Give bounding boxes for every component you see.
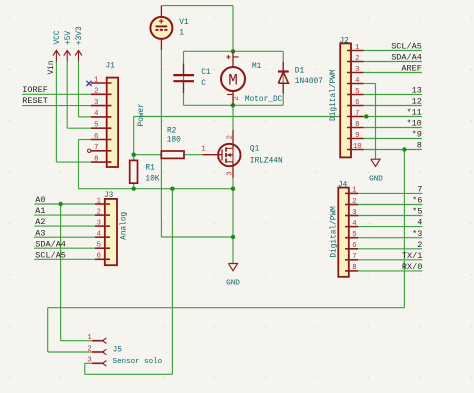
- svg-text:6: 6: [355, 99, 359, 107]
- svg-text:A2: A2: [35, 217, 45, 227]
- svg-text:J5: J5: [113, 346, 123, 354]
- svg-text:GND: GND: [226, 280, 240, 288]
- svg-text:RX/0: RX/0: [402, 262, 422, 272]
- svg-text:4: 4: [97, 231, 101, 239]
- wire net *11 rail (J2 pin7 to R2/R1): [134, 117, 367, 155]
- svg-text:M: M: [228, 71, 238, 89]
- power symbol VCC: [53, 50, 60, 61]
- pin 7 (J1): [88, 149, 112, 152]
- motor M1: [221, 51, 245, 105]
- pin 1 (J2): [347, 50, 364, 52]
- pin 3 (J4): [345, 215, 358, 217]
- resistor R1: [130, 160, 138, 183]
- svg-text:3: 3: [87, 357, 91, 365]
- wire net A0 to J5 pin1: [61, 204, 92, 341]
- pin 4 (J4): [345, 226, 358, 228]
- resistor R2: [161, 151, 184, 158]
- svg-text:SCL/A5: SCL/A5: [391, 42, 422, 52]
- svg-text:10: 10: [353, 143, 362, 151]
- junction motor bottom/drain: [231, 103, 235, 107]
- svg-text:Analog: Analog: [121, 211, 129, 239]
- svg-text:C: C: [201, 80, 206, 88]
- svg-text:1N4007: 1N4007: [295, 78, 323, 86]
- junction V1- GND: [231, 235, 235, 239]
- svg-text:5: 5: [94, 122, 98, 130]
- pin 3 (J3): [95, 225, 110, 227]
- wires J4 pins: [358, 193, 422, 271]
- svg-text:A3: A3: [35, 228, 45, 238]
- junction net 8 at J2 pin10: [402, 147, 406, 151]
- svg-text:2: 2: [97, 208, 101, 216]
- wire Q1 source to GND rail: [232, 178, 234, 189]
- pin 6 (J3): [95, 258, 110, 260]
- connector J1 body: [107, 78, 118, 167]
- junction R1 bottom GND rail: [132, 187, 136, 191]
- svg-text:8: 8: [352, 264, 356, 272]
- svg-text:SDA/A4: SDA/A4: [391, 53, 422, 63]
- junction Q1 source GND rail: [231, 187, 235, 191]
- svg-text:Sensor solo: Sensor solo: [113, 358, 163, 366]
- pin 5 (J2): [347, 94, 364, 96]
- wire J1 pin6 to GND rail: [79, 140, 92, 189]
- pin 3 (J2): [347, 72, 364, 74]
- wire motor bottom to Q1 drain: [232, 105, 234, 130]
- svg-text:Motor_DC: Motor_DC: [245, 96, 283, 104]
- svg-text:7: 7: [355, 110, 359, 118]
- ground symbol GND (J2 pin4): [371, 159, 380, 166]
- connector J4 body: [338, 188, 349, 277]
- power symbol +3V3: [75, 50, 82, 61]
- svg-text:8: 8: [355, 121, 359, 129]
- pin 1 (J5): [92, 338, 106, 344]
- svg-text:R2: R2: [167, 127, 177, 135]
- svg-text:1: 1: [94, 76, 98, 84]
- pin 7 (J2): [347, 116, 364, 118]
- svg-text:SDA/A4: SDA/A4: [35, 239, 66, 249]
- ground symbol GND (main): [228, 264, 237, 271]
- svg-text:2: 2: [87, 345, 91, 353]
- svg-text:D1: D1: [295, 68, 305, 76]
- svg-text:10K: 10K: [145, 176, 159, 184]
- svg-text:6: 6: [94, 133, 98, 141]
- diode D1: [278, 62, 289, 94]
- connector J3 body: [105, 199, 117, 265]
- pin 4 (J1): [91, 116, 112, 118]
- pin 3 (J5): [92, 361, 106, 367]
- pin 5 (J1): [91, 127, 112, 129]
- svg-text:A0: A0: [35, 195, 45, 205]
- battery V1: [150, 6, 172, 51]
- svg-text:J3: J3: [104, 192, 114, 200]
- junction V1+/motor top: [231, 49, 235, 53]
- pin 8 (J2): [347, 127, 364, 129]
- wire V1+ to motor top rail: [161, 6, 233, 52]
- pin 2 (J5): [92, 349, 106, 355]
- svg-text:J2: J2: [340, 38, 350, 46]
- wire GND rail to J5 pin3: [85, 189, 173, 375]
- svg-text:4: 4: [417, 218, 422, 228]
- svg-text:2: 2: [94, 88, 98, 96]
- wire net 8 (J2 pin10 to J5 pin2): [48, 150, 405, 353]
- svg-text:TX/1: TX/1: [402, 251, 422, 261]
- svg-text:1: 1: [352, 187, 356, 195]
- svg-text:Vin: Vin: [48, 60, 56, 74]
- svg-text:RESET: RESET: [22, 96, 48, 106]
- pin 8 (J1): [91, 161, 112, 163]
- svg-text:J4: J4: [338, 182, 348, 190]
- svg-text:4: 4: [94, 110, 98, 118]
- svg-text:GND: GND: [369, 175, 383, 183]
- wire R2 right lead to Q1 gate: [184, 154, 203, 156]
- svg-text:7: 7: [94, 144, 98, 152]
- svg-text:4: 4: [355, 77, 359, 85]
- svg-text:3: 3: [352, 209, 356, 217]
- svg-text:5: 5: [97, 242, 101, 250]
- connector J2 body: [340, 43, 351, 157]
- svg-text:2: 2: [352, 198, 356, 206]
- junction GND rail to J5-3: [170, 187, 174, 191]
- pin 1 (J1): [91, 82, 112, 84]
- pin 6 (J1): [91, 139, 112, 141]
- svg-text:IRLZ44N: IRLZ44N: [250, 158, 283, 166]
- pin 4 (J2): [347, 83, 364, 85]
- svg-text:1: 1: [87, 334, 91, 342]
- svg-text:7: 7: [417, 185, 422, 195]
- pin 2 (J2): [347, 61, 364, 63]
- svg-text:9: 9: [355, 132, 359, 140]
- wire J1 pin4 to +3V3: [79, 62, 92, 117]
- pin 7 (J4): [345, 259, 358, 261]
- wire J1 pin5 to +5V: [67, 62, 91, 129]
- pin 4 (J3): [95, 236, 110, 238]
- wire J1 pin8 to VCC/Vin: [56, 62, 91, 163]
- transistor Q1 IRLZ44N: [203, 130, 241, 178]
- svg-text:*9: *9: [412, 130, 422, 140]
- pin 6 (J4): [345, 248, 358, 250]
- wire GND rail y=188.7: [79, 188, 234, 190]
- svg-text:3: 3: [355, 66, 359, 74]
- wire D1 branch right side: [282, 51, 284, 105]
- pin 2 (J4): [345, 204, 358, 206]
- pin 10 (J2): [347, 149, 364, 151]
- svg-text:8: 8: [417, 141, 422, 151]
- svg-text:SCL/A5: SCL/A5: [35, 250, 66, 260]
- svg-text:2: 2: [417, 240, 422, 250]
- svg-text:+5V: +5V: [65, 31, 73, 45]
- svg-text:M1: M1: [252, 63, 262, 71]
- pin 5 (J4): [345, 237, 358, 239]
- wire motor bottom rail: [184, 104, 284, 106]
- wires J3 analog pins: [34, 204, 95, 259]
- svg-text:180: 180: [167, 137, 181, 145]
- pin 3 (J1): [91, 105, 112, 107]
- capacitor C1: [173, 64, 194, 94]
- svg-text:1: 1: [179, 30, 184, 38]
- svg-text:C1: C1: [201, 69, 211, 77]
- junction J2 pin7 net *11: [364, 114, 368, 118]
- svg-text:3: 3: [94, 99, 98, 107]
- svg-text:3: 3: [97, 219, 101, 227]
- svg-text:R1: R1: [145, 165, 155, 173]
- svg-text:12: 12: [412, 97, 422, 107]
- svg-text:IOREF: IOREF: [22, 85, 48, 95]
- svg-text:A1: A1: [35, 206, 45, 216]
- svg-text:*11: *11: [406, 108, 421, 118]
- wire J2 pin4 to GND symbol: [375, 84, 377, 160]
- wire GND node down to GND symbol: [232, 189, 234, 264]
- svg-text:1: 1: [355, 44, 359, 52]
- pin 5 (J3): [95, 247, 110, 249]
- wire R2 left lead node: [134, 154, 162, 156]
- svg-text:6: 6: [352, 242, 356, 250]
- svg-text:1: 1: [201, 145, 205, 153]
- pin 2 (J1): [91, 93, 112, 95]
- pin 1 (J4): [345, 192, 358, 194]
- svg-text:7: 7: [352, 253, 356, 261]
- svg-text:AREF: AREF: [401, 64, 421, 74]
- wire R1 top lead: [133, 155, 135, 161]
- wire V1- down and to GND node: [161, 50, 233, 237]
- pin 9 (J2): [347, 138, 364, 140]
- svg-text:VCC: VCC: [54, 30, 62, 44]
- svg-text:6: 6: [97, 253, 101, 261]
- wire C1 branch left side: [183, 51, 185, 105]
- svg-text:*3: *3: [412, 229, 422, 239]
- pin 2 (J3): [95, 214, 110, 216]
- svg-text:*6: *6: [412, 196, 422, 206]
- junction R2/R1/net: [132, 153, 136, 157]
- pin 6 (J2): [347, 105, 364, 107]
- wire R1 bottom lead: [133, 183, 135, 189]
- svg-text:2: 2: [355, 55, 359, 63]
- svg-text:4: 4: [352, 220, 356, 228]
- wire motor top rail: [184, 50, 284, 52]
- svg-text:8: 8: [94, 155, 98, 163]
- svg-text:2: 2: [226, 135, 234, 139]
- svg-text:*5: *5: [412, 207, 422, 217]
- svg-text:3: 3: [226, 171, 234, 175]
- pin 1 (J3): [95, 203, 110, 205]
- wire RESET to J1 pin3: [22, 105, 91, 107]
- svg-text:5: 5: [355, 88, 359, 96]
- svg-text:Digital/PWM: Digital/PWM: [330, 69, 338, 121]
- power symbol +5V: [64, 50, 71, 61]
- svg-text:J1: J1: [106, 63, 116, 71]
- svg-text:13: 13: [412, 86, 422, 96]
- no-connect flag J1 pin1: [86, 81, 91, 86]
- svg-text:5: 5: [352, 231, 356, 239]
- junction A0 to J5-1: [58, 202, 62, 206]
- svg-text:2: 2: [233, 96, 241, 100]
- svg-text:*10: *10: [406, 119, 421, 129]
- svg-text:1: 1: [97, 197, 101, 205]
- svg-text:Power: Power: [138, 103, 146, 126]
- wires J2 pins: [364, 51, 422, 150]
- wire IOREF to J1 pin2: [22, 93, 91, 95]
- svg-text:V1: V1: [179, 19, 189, 27]
- svg-text:+3V3: +3V3: [76, 26, 84, 45]
- svg-text:Digital/PWM: Digital/PWM: [330, 206, 338, 258]
- svg-text:Q1: Q1: [250, 146, 260, 154]
- pin 8 (J4): [345, 270, 358, 272]
